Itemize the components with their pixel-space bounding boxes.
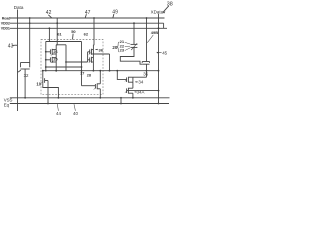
svg-text:61: 61 [57,32,62,37]
wire left drain bridge to node A [56,44,66,46]
wire between 34 and 34A [132,77,134,88]
node junction A [65,61,67,63]
node junction Read/x94 [93,17,95,19]
wire VDD2 to capacitor 20 [133,23,135,44]
capacitor 20 plates [131,43,138,50]
wire latch source rail [43,70,159,72]
wire transistor 34A source to VSS [132,93,134,98]
wire VSS rail [10,97,170,99]
transistor 10 (equalize left) [43,77,48,83]
wire VDD1 rail [10,27,167,29]
wire node drop x109.5 [109,54,111,71]
wire rail2-rail3 end stub [163,23,165,28]
wire Read rail [10,17,165,19]
node junction source rail left [42,70,44,72]
node junction source rail XData [158,70,160,72]
node junction gate/Eq [47,103,49,105]
node junction left gate row1 [45,51,47,53]
wire Read takeoff to right drain bus [92,18,95,45]
transistor 25 (left bottom) [50,57,56,63]
svg-text:49: 49 [112,9,118,15]
wire cross-couple top to node B [46,41,82,43]
wire left tail down [42,71,44,78]
transistor 10A (store right) [95,83,100,89]
transistor 34 [127,77,133,83]
wire Read takeoff to transistor 32 [29,18,31,63]
wire transistor 10 gate to Eq [47,81,49,104]
node junction right source/rail [93,70,95,72]
wire VSS-Eq stub [120,98,122,104]
svg-text:34: 34 [138,80,143,85]
wire transistor 34 drain to x146.5 [133,76,147,78]
node junction source rail/x100.3 [99,70,101,72]
node junction B/source rail [81,70,83,72]
brace for 20 [117,42,119,52]
svg-text:27: 27 [80,72,84,76]
wire XData vertical line [158,14,160,104]
svg-text:25: 25 [53,57,57,61]
node junction source rail x56 [55,70,57,72]
svg-text:36: 36 [99,47,104,52]
node junction Read/x146.5 [146,17,148,19]
wire gate tap row1 [46,51,51,53]
transistor 26 (left top) [50,49,56,55]
wire transistor 10A source to VSS [99,89,101,98]
wire Data to gate of transistor 32 [18,70,21,72]
svg-text:Eq: Eq [4,103,10,108]
svg-text:36: 36 [143,71,148,76]
wire gate tap row2 [46,59,51,61]
svg-text:Data: Data [14,5,24,10]
transistor 28 (right top) [90,49,94,55]
node junction left source/rail [55,70,57,72]
wire cross-couple A to right gate bus [66,61,88,63]
node junction left gate line/source rail [45,70,47,72]
node junction source rail x117 [116,70,118,72]
node junction left gate line/cross [45,66,47,68]
transistor 34A [127,88,133,94]
node junction x25/VSS [24,97,26,99]
latch cell dashed box [41,40,103,95]
wire left gate node line [45,42,47,71]
wire Eq rail [10,103,169,105]
svg-text:43: 43 [8,44,14,50]
wire VDD1 takeoff into latch [46,28,50,41]
wire Read takeoff right to transistor 36 [146,18,148,62]
wire VDD2 takeoff to left drain bus [56,18,57,45]
node junction x109.5/source rail [109,70,111,72]
wire XData to gate of 34A [127,90,159,92]
wire node B to gate of 10A [82,85,96,87]
node junction left gate row2 [45,59,47,61]
wire cross-couple left gate line to node B [46,66,82,68]
wire Data vertical line [17,10,19,112]
wire transistor 36 below source rail [146,71,148,78]
svg-text:20: 20 [112,45,117,50]
node junction stub/Eq [120,103,122,105]
svg-text:10: 10 [36,81,41,86]
wire transistor 32 source to VSS [24,73,26,98]
wire right tail drain from source rail [99,71,101,84]
transistor arrows (style marks) [41,53,127,93]
wire mid node line A [65,45,67,71]
wire transistor 10 source to VSS [43,84,59,98]
node junction x100.3/VSS [99,97,101,99]
node junction x58.6/VSS [58,97,60,99]
node junction VDD2/x57 [56,22,58,24]
node junction VDD2/cap [133,22,135,24]
node junction Read/x30 [29,17,31,19]
svg-text:62: 62 [84,32,89,37]
node junction source rail x146 [146,70,148,72]
svg-text:23: 23 [120,47,125,52]
transistor 36 [142,62,149,71]
node junction stub/VSS [120,97,122,99]
svg-text:VDD1: VDD1 [1,27,10,31]
svg-text:50: 50 [71,29,76,34]
wire capacitor 20 bottom to gate of transistor 36 [120,47,142,64]
wire right gate bus [88,51,90,53]
svg-text:VDD2: VDD2 [1,22,10,26]
node junction x132.9/VSS [132,97,134,99]
wire row1 source to node drop [93,53,109,55]
wire right s/d bus [92,45,94,71]
transistor 27 (right bottom) [90,57,94,63]
node junction XData/Eq [158,103,160,105]
svg-text:45: 45 [162,51,167,56]
svg-text:32: 32 [24,73,29,78]
transistor 32 [21,63,30,73]
svg-text:40: 40 [73,111,78,116]
svg-text:26: 26 [53,50,57,54]
node junction XData/gate34A [158,90,160,92]
svg-text:XData: XData [151,10,164,15]
wire VDD2 rail [10,22,164,24]
svg-text:44: 44 [56,111,61,116]
svg-text:28: 28 [87,73,91,77]
node VDD1/XData junction [158,27,160,29]
svg-text:34A: 34A [137,89,145,94]
svg-text:49B: 49B [151,30,158,35]
wire mid node line B [81,42,83,86]
node junction B/cross [81,66,83,68]
wire source rail drop to gate of 34 [117,71,126,80]
wire left s/d bus [55,45,57,71]
svg-text:Read: Read [2,16,10,20]
node junction VDD1/x49 [49,27,51,29]
